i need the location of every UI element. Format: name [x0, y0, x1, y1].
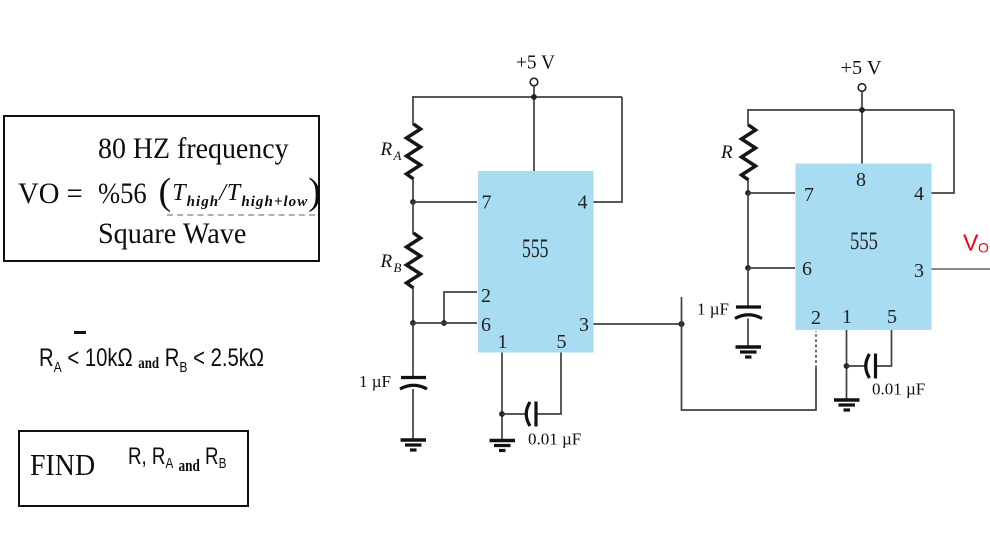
- wire: stub above output node: [681, 297, 683, 324]
- spec text: Square Wave: [98, 217, 246, 251]
- svg-text:7: 7: [482, 192, 492, 214]
- svg-text:0.01 µF: 0.01 µF: [528, 430, 581, 449]
- U2 pin label 6: [802, 258, 812, 280]
- junction: +5V on top rail (left): [531, 94, 537, 100]
- wire: node down to RB: [412, 202, 414, 234]
- capacitor C4 0.01uF: [866, 354, 876, 379]
- svg-text:555: 555: [522, 234, 549, 263]
- U1 pin label 2: [481, 285, 491, 307]
- svg-text:1 µF: 1 µF: [359, 372, 391, 391]
- find items: R, RA and RB: [128, 443, 226, 476]
- svg-text:1 µF: 1 µF: [697, 300, 729, 319]
- label RA: [380, 139, 402, 163]
- junction: pin6/C3 node: [745, 265, 751, 271]
- svg-text:7: 7: [804, 184, 814, 206]
- resistor RA: [407, 124, 421, 179]
- U1 label 555: [522, 234, 549, 263]
- wire: RB to pin6 node: [412, 288, 414, 324]
- label C4 0.01uF: [872, 380, 925, 399]
- wire: node to U2 pin 7: [748, 192, 795, 194]
- junction: output node: [679, 321, 685, 327]
- U2 pin label 4: [914, 183, 924, 205]
- wire: supply circle to U1 pin8 top: [533, 86, 535, 171]
- svg-text:5: 5: [557, 331, 567, 353]
- U2 pin label 3: [914, 260, 924, 282]
- U1 pin label 3: [579, 314, 589, 336]
- svg-text:5: 5: [887, 306, 897, 328]
- svg-text:555: 555: [850, 228, 878, 255]
- wire: node to U1 pin 7: [413, 201, 477, 203]
- wire: node to U2 pin 6: [748, 267, 795, 269]
- junction: RB/pin6/C1 node: [410, 320, 416, 326]
- wire: output node down and across to U2 pin 2: [682, 324, 817, 410]
- U1 pin label 1: [498, 331, 508, 353]
- IC U2 555 body: [796, 164, 932, 331]
- U2 pin label 8: [856, 169, 866, 191]
- svg-text:V: V: [963, 230, 979, 256]
- wire: pin1 node to C4: [847, 365, 867, 367]
- junction: pin1/C2 node: [499, 411, 505, 417]
- wire: U1 pin 5 down and to C2: [537, 353, 561, 415]
- U2 pin label 1: [842, 306, 852, 328]
- resistor RB: [407, 233, 421, 288]
- U1 pin label 4: [578, 192, 588, 214]
- svg-text:B: B: [394, 260, 402, 275]
- ground (below C3): [736, 347, 762, 357]
- U2 pin label 2: [811, 307, 821, 329]
- +5 V supply terminal circle (left): [530, 78, 538, 86]
- spec formula (Thigh/Thigh+low): [159, 170, 323, 214]
- wire: top rail (left circuit): [413, 96, 622, 98]
- find box: [18, 430, 249, 507]
- wire: node down to C3: [747, 268, 749, 307]
- +5 V supply label (left): [516, 52, 556, 74]
- IC U1 555 body: [478, 171, 594, 353]
- svg-text:R: R: [720, 142, 733, 163]
- wire: U2 pin 1 to ground: [846, 330, 848, 399]
- spec text: 80 HZ frequency: [98, 132, 289, 166]
- wire: U1 pin 2 loop: [444, 292, 477, 323]
- wire: C3 to ground: [747, 319, 749, 347]
- svg-text:+5 V: +5 V: [516, 52, 556, 74]
- svg-text:6: 6: [481, 314, 491, 336]
- label C1 1uF: [359, 372, 391, 391]
- svg-text:4: 4: [578, 192, 588, 214]
- label C2 0.01uF: [528, 430, 581, 449]
- svg-text:2: 2: [481, 285, 491, 307]
- wire: RA to pin7 node: [412, 179, 414, 203]
- svg-text:3: 3: [579, 314, 589, 336]
- svg-text:8: 8: [856, 169, 866, 191]
- capacitor C2 0.01uF: [526, 402, 536, 427]
- junction: pin2 loop on pin6 wire: [441, 320, 447, 326]
- wire: U2 pin 3 output to Vo: [932, 268, 990, 270]
- wire: U1 pin 1 to ground: [501, 353, 503, 441]
- ground (below U2 pin 1): [834, 400, 860, 410]
- wire: supply circle to U2 pin 8: [861, 92, 863, 164]
- ground (below C1): [401, 440, 427, 450]
- capacitor C1 1uF: [400, 378, 427, 390]
- svg-text:4: 4: [914, 183, 924, 205]
- label RB: [380, 251, 402, 275]
- junction: +5V on top rail (right): [859, 107, 865, 113]
- U2 label 555: [850, 228, 878, 255]
- wire: U2 pin 4 to right riser: [932, 110, 955, 193]
- spec text: %56: [98, 177, 147, 211]
- svg-text:A: A: [393, 148, 402, 163]
- label Vo: [963, 230, 989, 256]
- svg-text:+5 V: +5 V: [841, 57, 883, 79]
- U1 pin label 7: [482, 192, 492, 214]
- constraint text RA < 10k ohm and RB < 2.5k ohm: [39, 344, 264, 376]
- wire: C1 to ground: [412, 389, 414, 439]
- wire: node to U1 pin 6: [413, 322, 477, 324]
- svg-text:1: 1: [842, 306, 852, 328]
- find label: [30, 447, 95, 483]
- wire: U1 pin 3 output: [594, 323, 682, 325]
- junction: U2 pin1/C4 node: [844, 363, 850, 369]
- label C3 1uF: [697, 300, 729, 319]
- svg-text:O: O: [978, 240, 989, 256]
- svg-text:1: 1: [498, 331, 508, 353]
- U1 pin label 5: [557, 331, 567, 353]
- svg-text:3: 3: [914, 260, 924, 282]
- junction: RA/RB/pin7 node: [410, 199, 416, 205]
- wire: node down to pin6 node: [747, 193, 749, 268]
- wire: pin1 node to C2: [502, 413, 526, 415]
- spec box: [3, 115, 320, 262]
- wire: node down to C1: [412, 323, 414, 377]
- U1 pin label 6: [481, 314, 491, 336]
- svg-text:0.01 µF: 0.01 µF: [872, 380, 925, 399]
- svg-text:R: R: [380, 139, 393, 160]
- wire: top rail (right circuit): [748, 109, 954, 111]
- capacitor C3 1uF: [735, 307, 762, 319]
- spec text: VO =: [18, 177, 83, 211]
- wire: top rail down to R: [747, 109, 749, 126]
- resistor R: [742, 125, 756, 180]
- ground (below U1 pin 1): [490, 441, 516, 451]
- label R: [720, 142, 733, 163]
- svg-text:6: 6: [802, 258, 812, 280]
- wire: U1 pin 4 to right riser: [594, 97, 623, 202]
- +5 V supply terminal circle (right): [858, 84, 866, 92]
- U2 pin label 5: [887, 306, 897, 328]
- wire: top rail down to RA: [412, 96, 414, 125]
- wire: U2 pin 5 down and to C4: [876, 330, 892, 366]
- dashed underline artifact: [167, 214, 315, 216]
- svg-text:R: R: [380, 251, 393, 272]
- junction: R/pin7 node: [745, 190, 751, 196]
- U2 pin label 7: [804, 184, 814, 206]
- stray dash artifact: [74, 331, 86, 334]
- wire: R to pin7 node: [747, 180, 749, 194]
- +5 V supply label (right): [841, 57, 883, 79]
- svg-text:2: 2: [811, 307, 821, 329]
